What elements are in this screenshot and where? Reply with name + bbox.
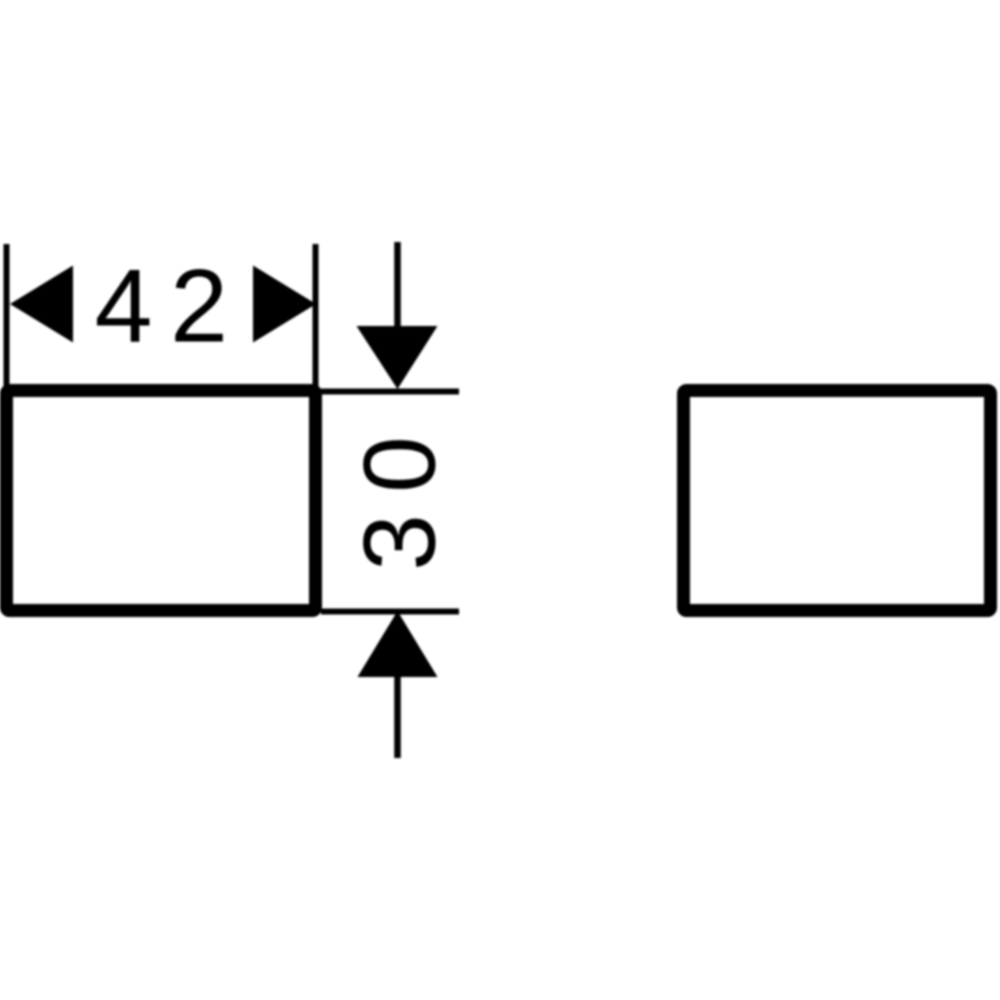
arrow left of 42 bbox=[10, 266, 73, 343]
up arrow of 30 bbox=[358, 611, 438, 677]
right rectangle (side view) bbox=[684, 391, 991, 611]
extension line right of 42 bbox=[313, 244, 319, 392]
down arrow shaft bbox=[394, 242, 401, 330]
svg-text:3: 3 bbox=[343, 514, 457, 571]
down arrow of 30 bbox=[357, 326, 438, 389]
extension line top of 30 bbox=[321, 389, 459, 395]
dimension text 30 rotated bbox=[343, 436, 457, 571]
up arrow shaft bbox=[394, 673, 401, 758]
svg-text:4: 4 bbox=[95, 249, 153, 365]
svg-text:0: 0 bbox=[343, 436, 457, 493]
left rectangle (plan view) bbox=[7, 391, 316, 611]
arrow right of 42 bbox=[253, 266, 316, 343]
extension line bottom of 30 bbox=[321, 609, 459, 615]
extension line left of 42 bbox=[4, 244, 10, 392]
svg-text:2: 2 bbox=[170, 249, 228, 365]
